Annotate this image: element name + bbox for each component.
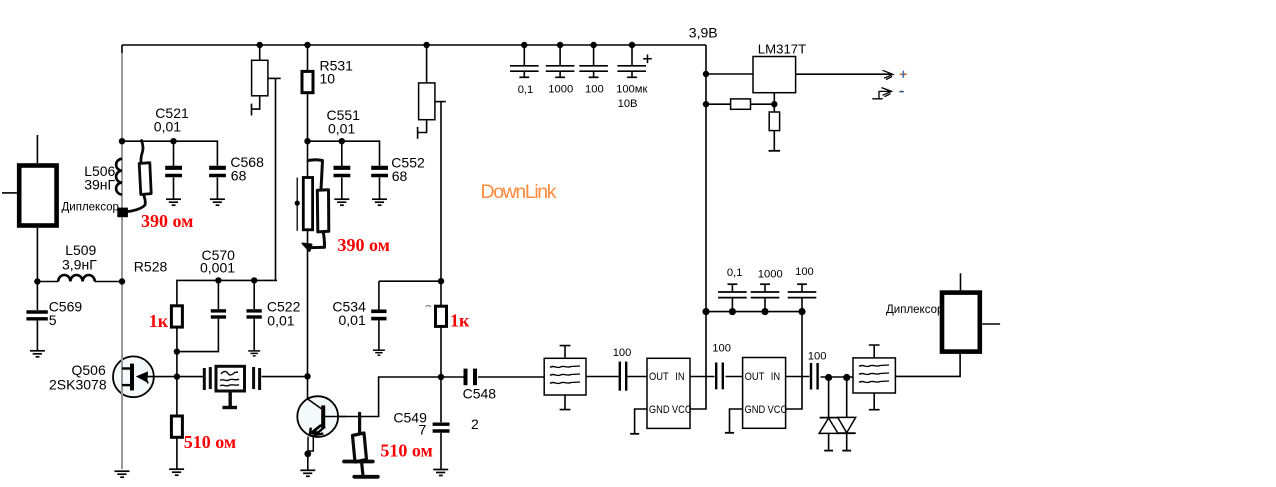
node diode1 top <box>825 374 832 381</box>
artifact tilde near 1k <box>426 305 431 308</box>
svg-text:0,01: 0,01 <box>154 119 181 135</box>
node LM317 adj row <box>703 101 709 107</box>
wire LM317 output with arrow <box>796 73 891 75</box>
ground amp2 (bar) <box>725 432 734 434</box>
wire trimmer2 wiper vertical <box>440 102 442 282</box>
wire LM317 adj row <box>706 103 774 105</box>
resistor R528 1k <box>171 306 182 327</box>
ground under C534 (small) <box>373 350 385 355</box>
wire BJT base <box>327 377 441 417</box>
amplifier U2 <box>647 358 690 428</box>
label minus output <box>899 91 903 93</box>
svg-text:0,01: 0,01 <box>267 312 294 328</box>
svg-text:1000: 1000 <box>548 83 573 95</box>
wire adj resistor to ground <box>773 104 775 151</box>
capacitor C552 <box>371 168 388 199</box>
wire 3.9V rail right vertical <box>690 45 706 409</box>
svg-text:7: 7 <box>419 421 427 437</box>
svg-text:0,01: 0,01 <box>328 120 355 136</box>
wire LM317 input <box>706 73 753 75</box>
svg-text:C548: C548 <box>463 385 497 401</box>
node square (diplexer tap) <box>117 208 128 218</box>
resistor adj vertical <box>769 112 779 131</box>
diode VD2 <box>838 378 856 451</box>
ground under 510 resistor <box>169 469 184 475</box>
capacitor C521 <box>165 168 182 199</box>
resistor 390om hand-drawn (left) <box>125 141 152 212</box>
node bus-cap 100 <box>590 42 596 48</box>
capacitor 100 (c) <box>811 363 818 390</box>
wire trimmer1 wiper vertical <box>275 78 277 280</box>
wire C551 lead <box>341 141 343 166</box>
wire LM317 adj pin down <box>773 93 775 105</box>
wire cap bus row2 <box>706 311 802 313</box>
capacitor bank1 100 <box>579 45 608 77</box>
svg-text:IN: IN <box>771 371 780 383</box>
node 1k2 top / C534 row <box>438 278 444 284</box>
wire C570 rail <box>177 280 277 305</box>
transistor Q506 2SK3078 <box>113 356 154 397</box>
svg-text:100: 100 <box>613 347 632 359</box>
svg-text:Диплексор: Диплексор <box>62 202 119 214</box>
wire cap100b to amp2 OUT <box>726 376 743 378</box>
svg-text:10: 10 <box>320 70 336 86</box>
node C548/C549 junction <box>438 374 444 380</box>
node C522 top <box>251 277 257 283</box>
svg-text:1к: 1к <box>149 311 169 331</box>
resistor 1k (right of C534) <box>436 306 447 326</box>
resistor 510 (black box under FET row) <box>171 416 182 437</box>
node bus-cap 0,1 <box>521 42 527 48</box>
node gate junction <box>174 373 180 379</box>
label plus output <box>900 71 907 78</box>
svg-text:510 ом: 510 ом <box>184 432 236 452</box>
wire filter1 to cap100a <box>586 376 619 378</box>
node diode2 top <box>843 374 850 381</box>
node C570 top <box>215 277 221 283</box>
ground under C522 (small) <box>248 351 260 356</box>
diode VD1 <box>819 378 838 451</box>
node C521 top <box>170 138 176 144</box>
capacitor 100 (b) <box>716 363 723 390</box>
node rail-row1 <box>119 138 125 144</box>
wire FET gate <box>154 376 205 378</box>
svg-text:100: 100 <box>808 351 827 363</box>
svg-text:GND: GND <box>745 405 766 417</box>
svg-text:0,01: 0,01 <box>339 312 366 328</box>
svg-text:R528: R528 <box>134 258 168 274</box>
svg-text:1к: 1к <box>450 310 470 330</box>
SECTION: wires <box>115 42 961 477</box>
svg-text:100: 100 <box>712 342 731 354</box>
diplexer U4 right <box>942 273 1000 351</box>
capacitor bank2 0,1 <box>718 284 747 311</box>
node bus-trimmer1 <box>257 42 263 48</box>
node bus-R531 <box>304 42 310 48</box>
capacitor C569 <box>26 282 47 351</box>
filter F1 (SAW) <box>544 346 586 410</box>
svg-text:1000: 1000 <box>758 269 783 281</box>
svg-text:OUT: OUT <box>649 371 669 383</box>
svg-text:IN: IN <box>675 371 684 383</box>
ground under C551 <box>334 199 349 205</box>
node R531-row <box>304 138 310 144</box>
ground under left gray rail <box>115 471 130 477</box>
ground under BJT <box>300 470 315 476</box>
node capbus2 0,1 <box>729 308 736 315</box>
node capbus2 1000 <box>761 308 768 315</box>
node rail-capbus2 <box>702 308 709 315</box>
wire row1 left (C521/C568) <box>122 141 217 166</box>
crystal filter ZQ (hand-drawn) <box>204 366 259 407</box>
resistor 510om hand-drawn (tilted) <box>344 413 378 476</box>
node adj <box>771 101 777 107</box>
capacitor C549 <box>433 424 450 431</box>
trimmer RP2 top-mid <box>418 45 446 139</box>
wire C534 row <box>379 280 441 282</box>
wire filter2 to diplexer2 <box>895 354 960 377</box>
wire cap100a to amp1 OUT <box>628 376 648 378</box>
minus output symbol <box>872 88 891 99</box>
wire C521 lead <box>173 141 175 166</box>
trimmer thin mid (with wiper dot) <box>295 178 313 231</box>
wire amp2 gnd <box>730 409 743 433</box>
node diplexer1 bottom <box>34 278 40 284</box>
svg-text:VCC: VCC <box>672 405 692 417</box>
svg-text:390 ом: 390 ом <box>338 235 390 255</box>
node bus-cap 100mk <box>629 42 635 48</box>
filter F2 (SAW) <box>853 345 895 410</box>
SECTION: components <box>2 45 1000 477</box>
svg-text:100мк: 100мк <box>616 84 647 96</box>
svg-text:39нГ: 39нГ <box>84 177 115 193</box>
svg-text:0,1: 0,1 <box>518 84 534 96</box>
resistor 390om hand-drawn (mid) <box>303 160 329 251</box>
ground under C549 <box>433 470 448 476</box>
wire R528 column to ground <box>176 327 178 469</box>
SECTION: texts <box>49 25 944 461</box>
transistor VT (BJT) <box>297 396 346 454</box>
wire amp2 IN to cap100c <box>786 376 810 378</box>
wire C548 row to filter1 <box>441 376 544 378</box>
ground under C569 <box>30 351 45 357</box>
node L509 right on rail <box>119 278 125 284</box>
ground under C568 <box>210 199 225 205</box>
svg-text:3,9нГ: 3,9нГ <box>62 257 97 273</box>
capacitor C534 <box>371 311 386 349</box>
capacitor bank1 0,1 <box>510 45 539 77</box>
inductor L509 <box>37 275 122 282</box>
wire 1k2 column <box>440 281 442 377</box>
resistor adj horizontal <box>731 99 751 109</box>
trimmer RP1 top-left <box>252 45 281 116</box>
svg-text:100: 100 <box>585 84 604 96</box>
capacitor C570 <box>211 280 226 317</box>
arrow plus output <box>883 70 894 79</box>
svg-text:100: 100 <box>795 266 814 278</box>
wire amp1 IN to cap100b <box>690 376 715 378</box>
wire C534 lead <box>378 281 380 309</box>
wire R531 column <box>307 45 309 376</box>
wire C549 leads <box>440 377 442 470</box>
resistor R531 <box>302 71 313 92</box>
node BJT emitter <box>304 450 311 457</box>
diplexer U1 left <box>2 135 57 282</box>
svg-text:5: 5 <box>49 312 57 328</box>
wire top supply bus <box>122 44 706 46</box>
capacitor bank2 1000 <box>751 284 780 311</box>
svg-text:GND: GND <box>649 405 670 417</box>
node R528-C570 <box>174 348 180 354</box>
wire C570 bottom bend <box>177 319 219 352</box>
ground under C552 <box>372 199 387 205</box>
amplifier U3 <box>743 358 786 429</box>
ground amp1 (bar) <box>630 433 639 435</box>
wire collector into BJT <box>307 376 309 399</box>
capacitor bank1 1000 <box>546 45 575 77</box>
capacitor C522 <box>247 280 262 350</box>
node bus-cap 1000 <box>557 42 563 48</box>
node capbus2 100 <box>798 308 805 315</box>
svg-text:390 ом: 390 ом <box>141 211 193 231</box>
wire row1 right (C551/C552) <box>308 141 380 166</box>
capacitor C568 <box>209 168 226 199</box>
svg-text:Диплексор: Диплексор <box>886 304 943 316</box>
svg-text:2: 2 <box>471 416 479 432</box>
capacitor C551 <box>334 168 351 199</box>
capacitor bank2 100 <box>788 284 817 311</box>
regulator LM317T <box>753 57 796 93</box>
inductor L506 <box>116 159 122 195</box>
svg-text:10В: 10В <box>618 98 638 110</box>
wire left vertical rail (gray) <box>121 45 123 56</box>
ground adj resistor (bar) <box>769 150 781 152</box>
wire amp1 gnd <box>635 409 647 434</box>
svg-text:510 ом: 510 ом <box>380 440 432 460</box>
node C551 top <box>339 138 345 144</box>
svg-text:0,001: 0,001 <box>200 259 235 275</box>
capacitor bank1 100mk (polar) <box>617 45 651 77</box>
node collector junction <box>304 373 310 379</box>
svg-text:OUT: OUT <box>745 371 765 383</box>
wire BJT emitter to ground <box>307 454 309 470</box>
svg-text:LM317T: LM317T <box>758 41 806 56</box>
wire amp2 vcc column <box>786 312 802 409</box>
svg-text:0,1: 0,1 <box>727 267 743 279</box>
svg-text:68: 68 <box>231 168 247 184</box>
svg-text:68: 68 <box>392 168 408 184</box>
wire crystal filter to collector node <box>262 376 308 378</box>
capacitor 100 (a) <box>620 362 626 391</box>
node bus-trimmer2 <box>423 42 429 48</box>
ground under C521 <box>166 199 181 205</box>
svg-text:2SK3078: 2SK3078 <box>49 377 107 393</box>
svg-text:3,9В: 3,9В <box>689 25 718 41</box>
svg-text:DownLink: DownLink <box>481 181 557 203</box>
wire cap100c to filter2 <box>821 376 854 378</box>
capacitor C548 <box>466 369 476 386</box>
svg-text:VCC: VCC <box>768 405 788 417</box>
node LM317 input <box>703 71 709 77</box>
